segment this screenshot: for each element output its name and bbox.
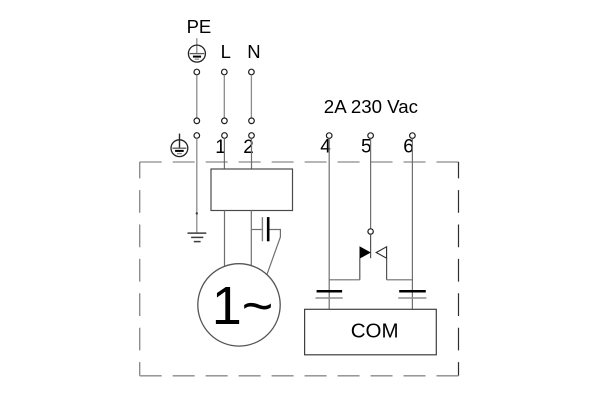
wire terminal 2 to block <box>251 138 253 169</box>
wire block to motor (neutral) <box>250 211 252 267</box>
wire terminal 6 branch <box>411 138 413 309</box>
wire switch to terminal 6 branch <box>387 279 413 281</box>
wire PE lead <box>196 75 198 118</box>
wire terminal 5 to switch <box>370 138 372 228</box>
terminal pin L (top) <box>222 69 228 75</box>
svg-text:N: N <box>247 41 260 62</box>
terminal pin N (top) <box>249 69 255 75</box>
COM box <box>305 309 437 355</box>
wire block to motor (phase) <box>224 211 226 267</box>
svg-text:2: 2 <box>243 137 254 158</box>
wire capacitor to motor <box>266 230 281 278</box>
protective earth symbol (supply PE) <box>188 38 205 62</box>
ground symbol <box>188 233 207 242</box>
terminal pin PE (top) <box>194 69 200 75</box>
wire switch to terminal 4 branch <box>329 279 360 281</box>
wire L lead <box>223 75 225 118</box>
terminal 4 circle <box>326 133 332 139</box>
svg-text:COM: COM <box>351 319 399 342</box>
run capacitor <box>262 217 268 241</box>
terminal 6 circle <box>410 133 416 139</box>
terminal 5 circle <box>368 133 374 139</box>
wire N lead <box>250 75 252 118</box>
terminal PE (socket half) <box>194 133 200 139</box>
connector pin N (plug half) <box>249 118 255 124</box>
earth symbol inside enclosure <box>171 134 188 157</box>
svg-text:5: 5 <box>361 136 372 157</box>
enclosure dashed boundary <box>140 162 459 376</box>
capacitor (terminal 6 branch) <box>398 291 426 298</box>
terminal 1 circle <box>222 133 228 139</box>
svg-text:2A 230 Vac: 2A 230 Vac <box>324 96 418 117</box>
connector pin L (plug half) <box>222 118 228 124</box>
terminal 2 circle <box>249 133 255 139</box>
motor M1 single-phase <box>198 264 280 346</box>
wire PE to internal ground <box>196 138 198 233</box>
wire terminal 4 branch <box>328 138 330 309</box>
capacitor (terminal 4 branch) <box>316 291 343 298</box>
wire terminal 1 to block <box>223 138 225 169</box>
svg-text:PE: PE <box>187 16 212 37</box>
svg-text:L: L <box>221 41 231 62</box>
connector pin PE (plug half) <box>194 118 200 124</box>
thermal switch contact <box>360 229 387 280</box>
wire to run capacitor <box>251 229 261 231</box>
terminal block <box>211 169 293 211</box>
svg-text:1~: 1~ <box>212 276 274 336</box>
node PE junction <box>196 212 198 214</box>
